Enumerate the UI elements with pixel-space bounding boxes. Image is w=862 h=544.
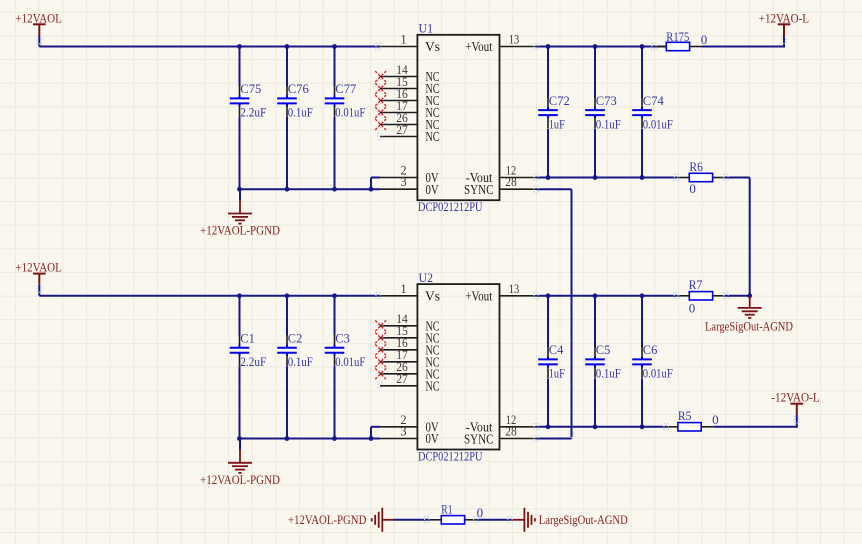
wire 0V rail (U1) bbox=[240, 188, 381, 190]
wire +12VAOL rail to U1 pin 1 bbox=[39, 46, 380, 48]
wire C76 leads bbox=[286, 47, 288, 190]
wire C73 leads bbox=[594, 47, 596, 178]
wire C74 leads bbox=[641, 47, 643, 178]
U2 pin 12 -Vout bbox=[466, 413, 537, 435]
svg-text:DCP021212PU: DCP021212PU bbox=[418, 199, 483, 214]
svg-text:0.1uF: 0.1uF bbox=[596, 116, 621, 131]
ground bars +12VAOL-PGND (bottom) bbox=[372, 508, 383, 532]
U2 pin 3 0V bbox=[380, 425, 439, 447]
resistor R175 0 bbox=[654, 42, 701, 50]
svg-text:3: 3 bbox=[400, 175, 406, 189]
svg-text:0.01uF: 0.01uF bbox=[643, 116, 673, 131]
no-ERC markers on U2 NC pins bbox=[375, 320, 386, 379]
wire +Vout rail (U1) bbox=[537, 46, 667, 48]
IC U2 DCP021212PU body bbox=[417, 270, 499, 463]
svg-text:0V: 0V bbox=[426, 182, 439, 197]
net label LargeSigOut-AGND (bottom) bbox=[539, 512, 628, 527]
power +12VAO-L bbox=[759, 11, 809, 36]
svg-text:C2: C2 bbox=[288, 330, 303, 345]
wire C3 leads bbox=[334, 296, 336, 439]
capacitor C74 0.01uF bbox=[632, 93, 673, 132]
svg-text:R1: R1 bbox=[441, 501, 452, 516]
U1 pin 15 NC bbox=[380, 75, 440, 96]
svg-text:Vs: Vs bbox=[425, 39, 440, 54]
wire pin 2 to 0V rail (U1) bbox=[371, 178, 380, 190]
U2 pin 27 NC bbox=[380, 372, 440, 393]
wire R1 to LargeSigOut-AGND bbox=[477, 519, 525, 521]
svg-text:1: 1 bbox=[400, 282, 406, 296]
junction dots on 0V rail (U1) bbox=[237, 187, 373, 192]
resistor R7 0 bbox=[677, 292, 724, 300]
svg-text:0.1uF: 0.1uF bbox=[288, 105, 313, 120]
capacitor C75 2.2uF bbox=[230, 81, 267, 120]
svg-text:28: 28 bbox=[505, 175, 517, 189]
svg-text:0: 0 bbox=[689, 181, 696, 196]
svg-text:28: 28 bbox=[505, 425, 517, 439]
svg-text:C5: C5 bbox=[596, 342, 611, 357]
svg-text:+12VAOL-PGND: +12VAOL-PGND bbox=[200, 223, 280, 238]
wire R6 to R7 junction bbox=[725, 178, 750, 296]
wire U1 SYNC to U2 SYNC bbox=[537, 189, 572, 438]
svg-text:13: 13 bbox=[509, 282, 520, 296]
svg-text:0: 0 bbox=[689, 301, 696, 316]
capacitor C72 1uF bbox=[538, 93, 570, 132]
svg-text:+12VAOL: +12VAOL bbox=[15, 260, 62, 275]
net label +12VAOL-PGND (bottom) bbox=[288, 512, 366, 527]
svg-text:C4: C4 bbox=[549, 342, 564, 357]
svg-text:0: 0 bbox=[701, 32, 708, 47]
wire pin 2 to 0V rail (U2) bbox=[371, 427, 380, 439]
svg-text:0V: 0V bbox=[426, 431, 439, 446]
capacitor C4 1uF bbox=[538, 342, 565, 381]
svg-text:LargeSigOut-AGND: LargeSigOut-AGND bbox=[705, 319, 793, 334]
junction dots on 0V rail (U2) bbox=[237, 436, 373, 441]
ground +12VAOL-PGND (U2) bbox=[200, 439, 280, 487]
capacitor C6 0.01uF bbox=[632, 342, 673, 381]
U1 pin 28 SYNC bbox=[464, 175, 537, 197]
U1 pin 17 NC bbox=[380, 99, 440, 120]
svg-text:C1: C1 bbox=[240, 330, 255, 345]
capacitor C5 0.1uF bbox=[585, 342, 621, 381]
IC U1 DCP021212PU body bbox=[417, 21, 499, 214]
svg-text:+12VAO-L: +12VAO-L bbox=[759, 11, 809, 26]
svg-text:C76: C76 bbox=[288, 81, 309, 96]
U1 pin 2 0V bbox=[380, 164, 439, 186]
svg-text:R7: R7 bbox=[689, 277, 703, 292]
ground LargeSigOut-AGND bbox=[705, 296, 793, 334]
capacitor C2 0.1uF bbox=[277, 330, 313, 369]
svg-text:C73: C73 bbox=[596, 93, 617, 108]
wire 0V rail (U2) bbox=[240, 438, 381, 440]
wire C6 leads bbox=[641, 296, 643, 427]
svg-text:C74: C74 bbox=[643, 93, 664, 108]
svg-text:2.2uF: 2.2uF bbox=[240, 105, 266, 120]
wire +Vout rail (U2) bbox=[537, 295, 678, 297]
junction R7 output node bbox=[725, 293, 753, 298]
wire R175 to +12VAO-L bbox=[702, 36, 785, 48]
svg-text:NC: NC bbox=[426, 378, 440, 393]
power +12VAOL (section U2) bbox=[15, 260, 62, 296]
junction dots -Vout rail (U1) bbox=[546, 175, 645, 180]
U1 pin 16 NC bbox=[380, 87, 440, 108]
svg-text:+12VAOL-PGND: +12VAOL-PGND bbox=[288, 512, 366, 527]
resistor R5 0 bbox=[666, 423, 713, 431]
U1 pin 1 Vs bbox=[380, 33, 440, 55]
svg-text:U1: U1 bbox=[419, 21, 434, 36]
wire -Vout rail (U1) bbox=[537, 177, 678, 179]
svg-text:0.01uF: 0.01uF bbox=[335, 105, 365, 120]
svg-text:27: 27 bbox=[396, 372, 408, 386]
wire C72 leads bbox=[547, 47, 549, 178]
wire C4 leads bbox=[547, 296, 549, 427]
svg-text:1uF: 1uF bbox=[549, 366, 565, 381]
svg-text:0: 0 bbox=[712, 412, 719, 427]
connection markers bbox=[37, 37, 799, 523]
wire C75 leads bbox=[239, 47, 241, 190]
wire R5 to -12VAO-L bbox=[713, 415, 797, 428]
svg-text:NC: NC bbox=[426, 129, 440, 144]
svg-text:U2: U2 bbox=[419, 270, 434, 285]
svg-text:1: 1 bbox=[400, 33, 406, 47]
wire ground to R1 bbox=[382, 519, 429, 521]
power +12VAOL (section U1) bbox=[15, 10, 62, 46]
capacitor C77 0.01uF bbox=[325, 81, 366, 120]
svg-text:13: 13 bbox=[509, 33, 520, 47]
wire C77 leads bbox=[334, 47, 336, 190]
U1 pin 27 NC bbox=[380, 123, 440, 144]
U1 pin 3 0V bbox=[380, 175, 439, 197]
svg-text:SYNC: SYNC bbox=[464, 182, 494, 197]
capacitor C76 0.1uF bbox=[277, 81, 313, 120]
svg-text:+Vout: +Vout bbox=[465, 39, 492, 54]
U2 pin 17 NC bbox=[380, 348, 440, 369]
U1 pin 12 -Vout bbox=[466, 164, 537, 186]
U1 pin 14 NC bbox=[380, 63, 440, 84]
U1 pin 13 +Vout bbox=[465, 33, 536, 55]
svg-text:0.01uF: 0.01uF bbox=[335, 354, 365, 369]
svg-text:R175: R175 bbox=[666, 29, 689, 44]
svg-text:C6: C6 bbox=[643, 342, 658, 357]
resistor R6 0 bbox=[677, 173, 724, 181]
power -12VAO-L bbox=[771, 390, 819, 416]
junction dots on +12VAOL rail (U2) bbox=[237, 293, 337, 298]
svg-text:R5: R5 bbox=[678, 408, 692, 423]
svg-text:-12VAO-L: -12VAO-L bbox=[771, 390, 819, 405]
wire C1 leads bbox=[239, 296, 241, 439]
U2 pin 13 +Vout bbox=[465, 282, 536, 304]
svg-text:+12VAOL: +12VAOL bbox=[15, 10, 62, 25]
svg-text:0.1uF: 0.1uF bbox=[596, 366, 621, 381]
U2 pin 14 NC bbox=[380, 312, 440, 333]
junction dots on +12VAOL rail (U1) bbox=[237, 44, 337, 49]
capacitor C73 0.1uF bbox=[585, 93, 621, 132]
svg-text:C72: C72 bbox=[549, 93, 570, 108]
junction dots +Vout rail (U2) bbox=[546, 293, 645, 298]
svg-text:SYNC: SYNC bbox=[464, 432, 494, 447]
svg-text:0: 0 bbox=[477, 505, 484, 520]
U2 pin 2 0V bbox=[380, 413, 439, 435]
svg-text:DCP021212PU: DCP021212PU bbox=[418, 448, 483, 463]
svg-text:+Vout: +Vout bbox=[465, 288, 492, 303]
svg-text:C75: C75 bbox=[240, 81, 261, 96]
U2 pin 15 NC bbox=[380, 324, 440, 345]
resistor R1 0 bbox=[429, 516, 476, 524]
capacitor C3 0.01uF bbox=[325, 330, 366, 369]
no-ERC markers on U1 NC pins bbox=[375, 71, 386, 130]
wire -Vout rail (U2) bbox=[537, 426, 667, 428]
svg-text:R6: R6 bbox=[689, 159, 703, 174]
svg-text:+12VAOL-PGND: +12VAOL-PGND bbox=[200, 472, 280, 487]
ground bars LargeSigOut-AGND (bottom) bbox=[524, 508, 535, 532]
wire C5 leads bbox=[594, 296, 596, 427]
svg-text:1uF: 1uF bbox=[549, 116, 565, 131]
U2 pin 16 NC bbox=[380, 336, 440, 357]
svg-text:27: 27 bbox=[396, 123, 408, 137]
wire C2 leads bbox=[286, 296, 288, 439]
svg-text:Vs: Vs bbox=[425, 288, 440, 303]
svg-text:3: 3 bbox=[400, 425, 406, 439]
wire +12VAOL rail to U2 pin 1 bbox=[39, 295, 380, 297]
junction dots +Vout rail (U1) bbox=[546, 44, 645, 49]
U2 pin 28 SYNC bbox=[464, 425, 537, 447]
capacitor C1 2.2uF bbox=[230, 330, 267, 369]
svg-text:C3: C3 bbox=[335, 330, 350, 345]
svg-text:C77: C77 bbox=[335, 81, 356, 96]
svg-text:0.01uF: 0.01uF bbox=[643, 366, 673, 381]
U2 pin 26 NC bbox=[380, 360, 440, 381]
U1 pin 26 NC bbox=[380, 111, 440, 132]
ground +12VAOL-PGND (U1) bbox=[200, 189, 280, 237]
junction dots -Vout rail (U2) bbox=[546, 424, 645, 429]
svg-text:0.1uF: 0.1uF bbox=[288, 354, 313, 369]
svg-text:LargeSigOut-AGND: LargeSigOut-AGND bbox=[539, 512, 628, 527]
U2 pin 1 Vs bbox=[380, 282, 440, 304]
svg-text:2.2uF: 2.2uF bbox=[240, 354, 266, 369]
